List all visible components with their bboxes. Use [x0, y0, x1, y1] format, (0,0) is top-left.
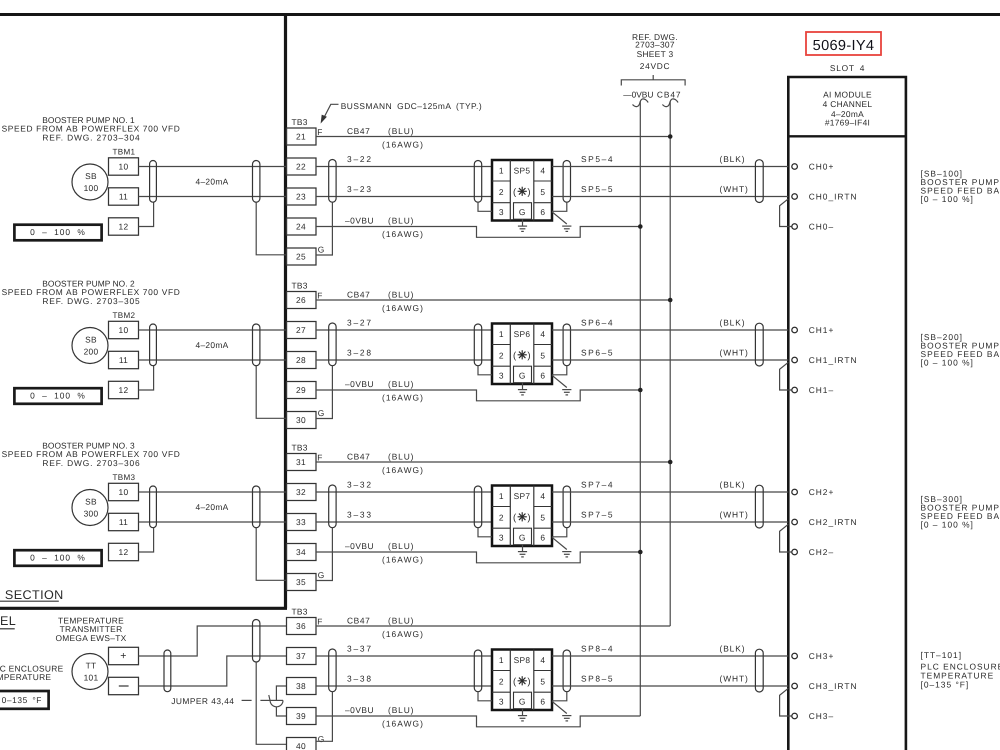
wire SP8-5 (WHT) bank4 — [552, 685, 788, 687]
svg-text:22: 22 — [296, 162, 306, 172]
terminal TBM3-10 — [109, 483, 139, 500]
svg-text:[TT–101]: [TT–101] — [921, 650, 963, 660]
svg-text:G: G — [318, 408, 325, 418]
svg-text:(BLU): (BLU) — [388, 290, 414, 300]
svg-text:24: 24 — [296, 222, 306, 232]
terminal TB3-25 — [287, 248, 317, 265]
svg-text:TB3: TB3 — [292, 607, 308, 617]
terminal TBM2-12 — [109, 381, 139, 398]
terminal TB3-32 — [287, 484, 317, 501]
svg-text:F: F — [317, 617, 322, 627]
cable shield module side bank4 — [755, 649, 763, 692]
svg-text:35: 35 — [296, 577, 306, 587]
svg-text:1: 1 — [499, 655, 504, 665]
svg-text:SP5–4: SP5–4 — [581, 154, 614, 164]
svg-text:CH1+: CH1+ — [809, 325, 835, 335]
ground stub SP5 G — [522, 219, 524, 225]
svg-text:29: 29 — [296, 385, 306, 395]
svg-text:SP6: SP6 — [514, 329, 531, 339]
wire SP5-5 (WHT) bank1 — [552, 196, 788, 198]
terminal TB3-38 — [287, 678, 317, 695]
ground SP5 pin 6 — [562, 225, 571, 227]
svg-text:SHEET 3: SHEET 3 — [637, 49, 674, 59]
svg-text:–0VBU: –0VBU — [345, 705, 374, 715]
terminal TBM2-11 — [109, 351, 139, 368]
terminal G box SP7 — [514, 528, 532, 545]
wire CB47 (BLU) bank4 — [316, 625, 670, 627]
panel boundary bottom edge — [0, 607, 287, 610]
cable shield TT side — [164, 650, 171, 692]
svg-text:(BLU): (BLU) — [388, 216, 414, 226]
jumper wire TB3-38 to TB3-39 — [276, 686, 286, 716]
transmitter terminal + — [109, 647, 139, 664]
svg-text:TT: TT — [86, 661, 97, 671]
svg-text:): ) — [527, 187, 530, 198]
svg-text:–0VBU: –0VBU — [345, 379, 374, 389]
svg-text:37: 37 — [296, 651, 306, 661]
svg-text:SP8–4: SP8–4 — [581, 644, 614, 654]
cable shield bank2 field side — [253, 324, 260, 366]
svg-text:TBM1: TBM1 — [113, 148, 136, 157]
svg-text:5: 5 — [540, 187, 545, 197]
IRTN to minus jumper bank4 — [780, 688, 792, 716]
wire SP5-4 (BLK) bank1 — [552, 166, 788, 168]
wire CB47 (BLU) bank3 — [316, 461, 670, 463]
ground SP7 pin 6 — [562, 551, 571, 553]
wire CB47 (BLU) bank2 — [316, 299, 670, 301]
svg-text:CB47: CB47 — [347, 616, 370, 626]
svg-text:4 CHANNEL: 4 CHANNEL — [823, 99, 873, 109]
shield drain into pin 3 SP5 — [478, 202, 492, 211]
ground stub SP6 G — [522, 383, 524, 389]
svg-text:(16AWG): (16AWG) — [382, 392, 424, 402]
pin 6 ground lead SP5 — [552, 212, 567, 224]
IRTN to minus jumper bank1 — [780, 199, 792, 227]
svg-text:32: 32 — [296, 487, 306, 497]
svg-text:11: 11 — [119, 517, 128, 527]
terminal G box SP5 — [514, 203, 532, 220]
cable shield bank1 TB3 side — [329, 160, 336, 203]
svg-text:6: 6 — [540, 696, 545, 706]
svg-text:SP8–5: SP8–5 — [581, 674, 614, 684]
svg-text:TB3: TB3 — [292, 443, 308, 453]
svg-text:36: 36 — [296, 621, 306, 631]
cable shield bank3 TBM side — [150, 486, 157, 528]
cable shield module side bank1 — [755, 160, 763, 203]
svg-text:30: 30 — [296, 415, 306, 425]
wire SP6-4 (BLK) bank2 — [552, 329, 788, 331]
svg-text:SB: SB — [85, 171, 97, 181]
wire SP6-5 (WHT) bank2 — [552, 359, 788, 361]
pin 6 ground lead SP7 — [552, 537, 567, 549]
shield drain into pin 3 SP8 — [478, 692, 492, 701]
wire SP8-4 (BLK) bank4 — [552, 655, 788, 657]
channel terminal CH0_IRTN — [792, 194, 798, 200]
svg-text:0 – 100 %: 0 – 100 % — [30, 553, 86, 563]
svg-text:5: 5 — [540, 677, 545, 687]
svg-text:G: G — [519, 370, 526, 380]
ground SP8 pin 6 — [562, 715, 571, 717]
svg-text:101: 101 — [84, 673, 99, 683]
wire SP7-4 (BLK) bank3 — [552, 491, 788, 493]
svg-text:34: 34 — [296, 547, 306, 557]
svg-text:CH2–: CH2– — [809, 547, 834, 557]
svg-text:3–28: 3–28 — [347, 348, 373, 358]
terminal TB3-40 — [287, 738, 317, 750]
wire SP7-5 (WHT) bank3 — [552, 521, 788, 523]
svg-text:26: 26 — [296, 295, 306, 305]
svg-text:2: 2 — [499, 677, 504, 687]
svg-text:REF. DWG. 2703–306: REF. DWG. 2703–306 — [42, 458, 140, 468]
wire TBM3-10 to TB3 bank3 — [139, 491, 287, 493]
svg-text:3: 3 — [499, 532, 504, 542]
svg-text:10: 10 — [119, 325, 129, 335]
svg-text:6: 6 — [540, 207, 545, 217]
svg-text:3: 3 — [499, 370, 504, 380]
shield capsule right of SP6 — [563, 324, 570, 366]
24VDC source bracket — [621, 80, 685, 86]
svg-text:EL: EL — [0, 614, 16, 628]
range tag 0-135 F — [0, 691, 49, 709]
svg-text:(: ( — [513, 513, 517, 524]
cable shield bank4 TB3 side — [329, 649, 336, 692]
channel terminal CH3+ — [792, 653, 798, 659]
svg-text:CH2+: CH2+ — [809, 487, 835, 497]
node -0VBU junction bank2 — [638, 388, 643, 393]
svg-text:0–135 °F: 0–135 °F — [2, 695, 42, 705]
channel terminal CH0- — [792, 224, 798, 230]
svg-text:TBM2: TBM2 — [113, 311, 136, 320]
wire TBM1-10 to TB3 bank1 — [139, 166, 287, 168]
terminal TBM1-11 — [109, 188, 139, 205]
svg-text:6: 6 — [540, 370, 545, 380]
cable shield bank2 TBM side — [150, 324, 157, 366]
svg-text:(16AWG): (16AWG) — [382, 465, 424, 475]
svg-text:4–20mA: 4–20mA — [196, 502, 229, 512]
wire TBM2-11 to TB3 bank2 — [139, 359, 287, 361]
svg-text:TB3: TB3 — [292, 281, 308, 291]
shield drain to G terminal bank4 — [256, 662, 286, 744]
shield capsule left of SP8 — [474, 650, 481, 692]
svg-text:(BLU): (BLU) — [388, 616, 414, 626]
terminal TB3-23 — [287, 188, 317, 205]
wire CB47 vertical bus — [669, 102, 671, 627]
svg-text:0 – 100 %: 0 – 100 % — [30, 227, 86, 237]
wire TBM2-12 shield drain bank2 — [139, 366, 154, 390]
svg-text:G: G — [519, 696, 526, 706]
svg-text:G: G — [318, 734, 325, 744]
svg-text:CH1_IRTN: CH1_IRTN — [809, 355, 858, 365]
svg-text:SP6–4: SP6–4 — [581, 318, 614, 328]
svg-text:CB47: CB47 — [347, 126, 370, 136]
svg-text:(: ( — [513, 351, 517, 362]
svg-text:2703–307: 2703–307 — [635, 40, 675, 50]
svg-text:SP5–5: SP5–5 — [581, 184, 614, 194]
svg-text:BUSSMANN GDC–125mA (TYP.): BUSSMANN GDC–125mA (TYP.) — [341, 101, 482, 111]
svg-text:SP8: SP8 — [514, 655, 531, 665]
ground SP5 G — [518, 225, 527, 227]
terminal G box SP8 — [514, 692, 532, 709]
cable shield module side bank3 — [755, 485, 763, 528]
svg-text:12: 12 — [119, 547, 129, 557]
IRTN to minus jumper bank3 — [780, 524, 792, 552]
svg-text:3–22: 3–22 — [347, 154, 373, 164]
shield drain to G right side bank4 — [316, 692, 332, 742]
wire -0VBU (BLU) bank1 — [316, 227, 640, 238]
svg-text:4: 4 — [540, 165, 545, 175]
svg-text:3–37: 3–37 — [347, 644, 373, 654]
svg-text:): ) — [527, 677, 530, 688]
surge protector SP5 — [492, 160, 552, 221]
pin 6 ground lead SP6 — [552, 375, 567, 387]
terminal TB3-29 — [287, 382, 317, 399]
shield drain to G terminal bank1 — [256, 202, 286, 255]
ground SP8 G — [518, 715, 527, 717]
surge protector SP7 — [492, 486, 552, 547]
svg-text:(16AWG): (16AWG) — [382, 718, 424, 728]
terminal TB3-27 — [287, 322, 317, 339]
svg-text:1: 1 — [499, 165, 504, 175]
svg-text:(BLK): (BLK) — [720, 154, 746, 164]
svg-text:10: 10 — [119, 162, 129, 172]
wire -0VBU (BLU) bank3 — [316, 552, 640, 563]
svg-text:SP7–5: SP7–5 — [581, 510, 614, 520]
wire 3-38 bank4 — [316, 685, 492, 687]
terminal TBM1-10 — [109, 158, 139, 175]
wire 3-33 bank3 — [316, 521, 492, 523]
svg-text:SP6–5: SP6–5 — [581, 348, 614, 358]
shield drain into pin 6 SP5 — [552, 202, 567, 211]
svg-text:(16AWG): (16AWG) — [382, 629, 424, 639]
svg-text:1: 1 — [499, 329, 504, 339]
ground SP7 G — [518, 551, 527, 553]
svg-text:3–23: 3–23 — [347, 184, 373, 194]
terminal G box SP6 — [514, 366, 532, 383]
IRTN to minus jumper bank2 — [780, 362, 792, 390]
svg-text:3–38: 3–38 — [347, 674, 373, 684]
svg-text:CH0+: CH0+ — [809, 162, 835, 172]
wire 3-28 bank2 — [316, 359, 492, 361]
svg-text:(16AWG): (16AWG) — [382, 229, 424, 239]
svg-text:JUMPER 43,44: JUMPER 43,44 — [171, 696, 234, 706]
svg-text:): ) — [527, 351, 530, 362]
channel terminal CH0+ — [792, 164, 798, 170]
svg-text:28: 28 — [296, 355, 306, 365]
panel boundary thick vertical line — [284, 15, 287, 609]
svg-text:(: ( — [513, 187, 517, 198]
terminal TB3-31 — [287, 454, 317, 471]
svg-text:0 – 100 %: 0 – 100 % — [30, 391, 86, 401]
svg-text:4–20mA: 4–20mA — [196, 176, 229, 186]
VFD speed source SB-300 — [72, 490, 108, 526]
svg-text:CH3+: CH3+ — [809, 651, 835, 661]
svg-text:40: 40 — [296, 741, 306, 750]
wire TBM2-10 to TB3 bank2 — [139, 329, 287, 331]
VFD speed source SB-100 — [72, 164, 108, 200]
svg-text:23: 23 — [296, 192, 306, 202]
svg-text:OMEGA EWS–TX: OMEGA EWS–TX — [55, 633, 126, 643]
svg-text:(BLK): (BLK) — [720, 480, 746, 490]
AI module title divider — [788, 135, 906, 137]
svg-text:300: 300 — [84, 509, 99, 519]
cable shield bank3 field side — [253, 486, 260, 528]
wire 3-27 bank2 — [316, 329, 492, 331]
ground stub SP7 G — [522, 545, 524, 551]
svg-text:CB47: CB47 — [347, 452, 370, 462]
svg-text:(WHT): (WHT) — [720, 348, 749, 358]
svg-text:21: 21 — [296, 132, 306, 142]
svg-text:4: 4 — [540, 329, 545, 339]
svg-text:–0VBU: –0VBU — [345, 541, 374, 551]
terminal TB3-35 — [287, 574, 317, 591]
wire TBM3-12 shield drain bank3 — [139, 528, 154, 552]
surge protector SP6 — [492, 324, 552, 385]
channel terminal CH3_IRTN — [792, 683, 798, 689]
range tag 0 - 100 % bank1 — [14, 225, 101, 241]
svg-text:12: 12 — [119, 222, 129, 232]
svg-text:CH2_IRTN: CH2_IRTN — [809, 517, 858, 527]
cable shield bank1 TBM side — [150, 161, 157, 203]
svg-text:(BLU): (BLU) — [388, 379, 414, 389]
svg-text:25: 25 — [296, 252, 306, 262]
terminal TB3-22 — [287, 158, 317, 175]
wire -0VBU vertical bus — [639, 102, 641, 717]
svg-text:TB3: TB3 — [292, 117, 308, 127]
svg-text:3: 3 — [499, 696, 504, 706]
svg-text:(BLU): (BLU) — [388, 452, 414, 462]
shield capsule left of SP5 — [474, 161, 481, 203]
wire TBM3-11 to TB3 bank3 — [139, 521, 287, 523]
shield drain to G right side bank1 — [316, 202, 332, 255]
svg-text:27: 27 — [296, 325, 306, 335]
svg-text:+: + — [120, 650, 126, 662]
svg-text:3–33: 3–33 — [347, 510, 373, 520]
svg-text:100: 100 — [84, 183, 99, 193]
svg-text:TBM3: TBM3 — [113, 473, 136, 482]
svg-text:(16AWG): (16AWG) — [382, 303, 424, 313]
svg-text:(BLU): (BLU) — [388, 705, 414, 715]
svg-text:31: 31 — [296, 457, 306, 467]
svg-text:[0–135 °F]: [0–135 °F] — [921, 680, 970, 690]
terminal TB3-36 — [287, 618, 317, 635]
svg-text:SP7–4: SP7–4 — [581, 480, 614, 490]
terminal TB3-30 — [287, 412, 317, 429]
channel terminal CH3- — [792, 713, 798, 719]
shield drain into pin 3 SP6 — [478, 366, 492, 375]
svg-text:CH1–: CH1– — [809, 385, 834, 395]
AI module 5069-IY4 outline — [788, 77, 906, 750]
wire 3-23 bank1 — [316, 196, 492, 198]
terminal TBM1-12 — [109, 218, 139, 235]
cable shield bank2 TB3 side — [329, 323, 336, 366]
svg-text:4–20mA: 4–20mA — [196, 340, 229, 350]
svg-text:SP7: SP7 — [514, 491, 531, 501]
svg-text:4: 4 — [540, 491, 545, 501]
terminal TB3-24 — [287, 218, 317, 235]
shield drain to G right side bank3 — [316, 528, 332, 581]
svg-text:33: 33 — [296, 517, 306, 527]
svg-text:REF. DWG. 2703–304: REF. DWG. 2703–304 — [42, 132, 140, 142]
channel terminal CH1_IRTN — [792, 357, 798, 363]
svg-text:(WHT): (WHT) — [720, 510, 749, 520]
wire TT - to TB3-37 — [139, 656, 287, 686]
svg-text:[0 – 100 %]: [0 – 100 %] — [921, 357, 974, 367]
svg-text:CH0_IRTN: CH0_IRTN — [809, 192, 858, 202]
wire 3-32 bank3 — [316, 491, 492, 493]
shield capsule right of SP7 — [563, 486, 570, 528]
terminal TBM3-11 — [109, 513, 139, 530]
terminal TB3-28 — [287, 352, 317, 369]
node CB47 junction bank2 — [668, 298, 673, 303]
svg-text:5: 5 — [540, 351, 545, 361]
svg-text:3–27: 3–27 — [347, 318, 373, 328]
svg-text:2: 2 — [499, 513, 504, 523]
svg-text:[0 – 100 %]: [0 – 100 %] — [921, 519, 974, 529]
svg-text:11: 11 — [119, 192, 128, 202]
cable shield bank3 TB3 side — [329, 485, 336, 528]
shield capsule left of SP6 — [474, 324, 481, 366]
transmitter terminal - — [109, 677, 139, 694]
svg-text:): ) — [527, 513, 530, 524]
svg-text:F: F — [317, 291, 322, 301]
shield capsule left of SP7 — [474, 486, 481, 528]
shield drain to G right side bank2 — [316, 366, 332, 419]
svg-text:SLOT 4: SLOT 4 — [830, 63, 865, 73]
cable shield bank1 field side — [253, 161, 260, 203]
svg-text:[0 – 100 %]: [0 – 100 %] — [921, 194, 974, 204]
svg-text:CH3_IRTN: CH3_IRTN — [809, 681, 858, 691]
svg-text:#1769–IF4I: #1769–IF4I — [825, 117, 870, 127]
wire TT + to TB3-36 — [139, 626, 287, 656]
svg-text:TEMPERATURE: TEMPERATURE — [0, 672, 51, 682]
wire 3-22 bank1 — [316, 166, 492, 168]
svg-text:(BLK): (BLK) — [720, 318, 746, 328]
channel terminal CH2_IRTN — [792, 519, 798, 525]
svg-text:REF. DWG. 2703–305: REF. DWG. 2703–305 — [42, 296, 140, 306]
svg-text:6: 6 — [540, 532, 545, 542]
svg-text:(16AWG): (16AWG) — [382, 554, 424, 564]
shield capsule right of SP8 — [563, 650, 570, 692]
channel terminal CH1+ — [792, 327, 798, 333]
terminal TB3-33 — [287, 514, 317, 531]
svg-text:SB: SB — [85, 497, 97, 507]
terminal TB3-26 — [287, 292, 317, 309]
svg-text:(: ( — [513, 677, 517, 688]
node CB47 junction bank1 — [668, 134, 673, 139]
terminal TB3-39 — [287, 708, 317, 725]
svg-text:G: G — [318, 570, 325, 580]
svg-text:39: 39 — [296, 711, 306, 721]
shield drain into pin 6 SP7 — [552, 528, 567, 537]
channel terminal CH2+ — [792, 489, 798, 495]
node -0VBU junction bank3 — [638, 550, 643, 555]
jumper hop arc — [270, 700, 283, 706]
ground SP6 G — [518, 389, 527, 391]
svg-text:3–32: 3–32 — [347, 480, 373, 490]
wire break symbol CB47 — [662, 99, 678, 107]
svg-text:12: 12 — [119, 385, 129, 395]
temperature transmitter TT-101 — [72, 654, 108, 690]
wire -0VBU (BLU) bank2 — [316, 390, 640, 401]
terminal TB3-37 — [287, 648, 317, 665]
terminal TB3-34 — [287, 544, 317, 561]
svg-text:CB47: CB47 — [657, 90, 682, 100]
svg-text:CH0–: CH0– — [809, 222, 834, 232]
svg-text:–0VBU: –0VBU — [345, 216, 374, 226]
svg-text:2: 2 — [499, 351, 504, 361]
svg-text:—0VBU: —0VBU — [623, 90, 653, 100]
svg-text:11: 11 — [119, 355, 128, 365]
